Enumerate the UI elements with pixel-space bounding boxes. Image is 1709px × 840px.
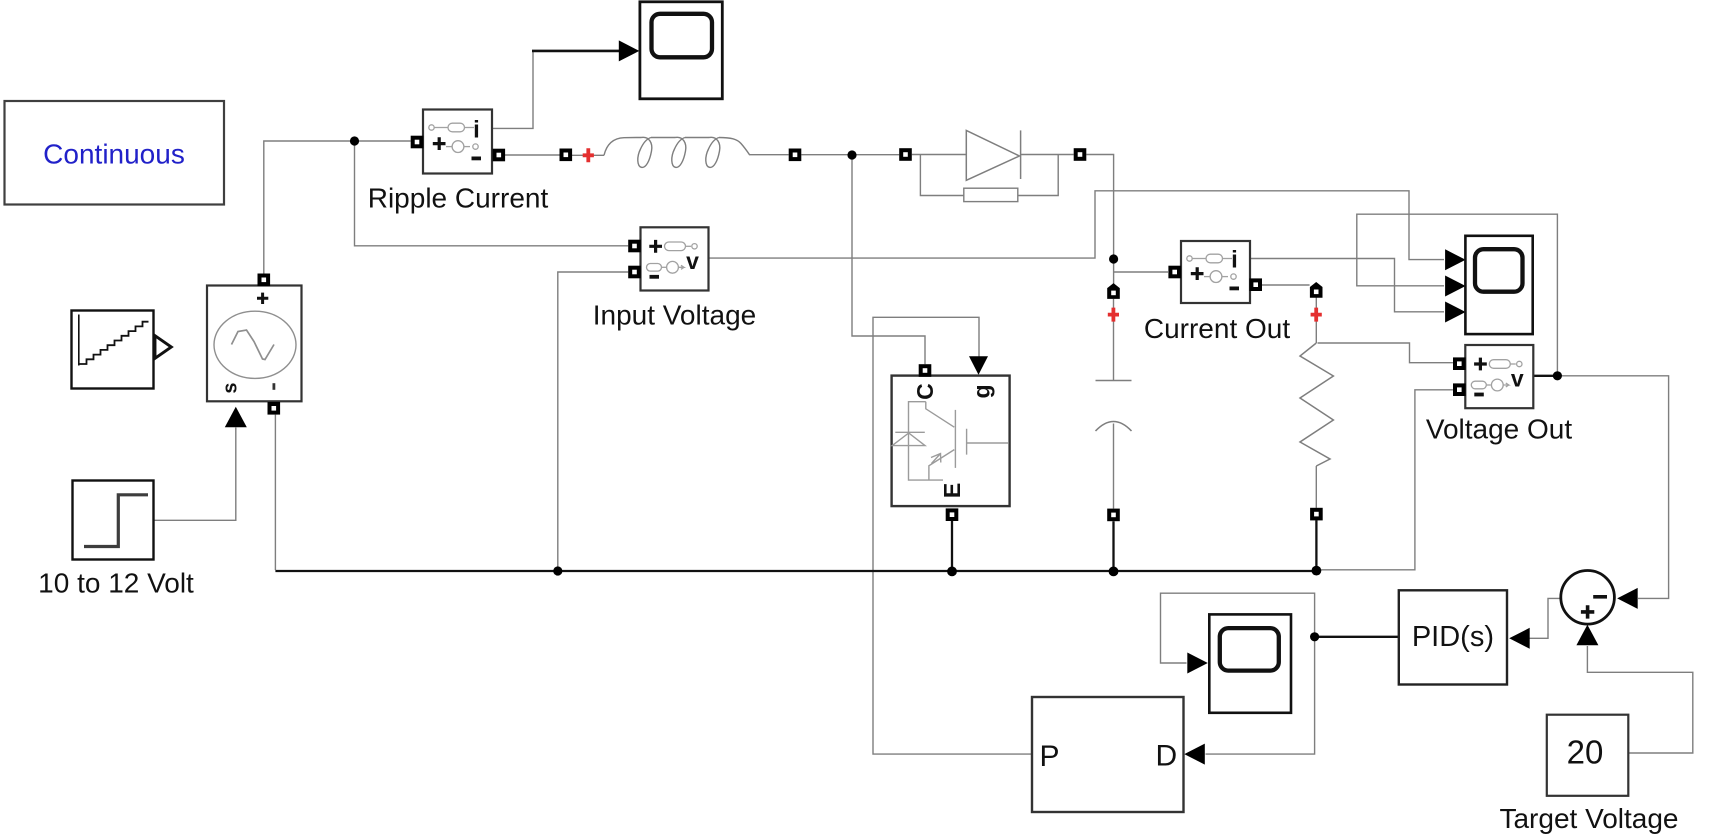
svg-text:i: i [1231,247,1238,274]
svg-text:10 to 12 Volt: 10 to 12 Volt [38,568,194,599]
svg-text:Target Voltage: Target Voltage [1499,803,1678,834]
svg-text:v: v [686,248,699,274]
svg-text:Ripple Current: Ripple Current [368,183,549,214]
svg-text:D: D [1156,740,1178,773]
svg-text:C: C [912,383,938,400]
svg-text:s: s [220,382,242,393]
svg-text:P: P [1040,740,1060,773]
svg-text:v: v [1511,366,1524,392]
svg-text:Input Voltage: Input Voltage [593,300,756,331]
svg-text:Voltage Out: Voltage Out [1426,414,1573,445]
svg-text:g: g [969,384,995,398]
svg-text:Continuous: Continuous [43,139,185,170]
svg-text:Current Out: Current Out [1144,313,1290,344]
svg-text:PID(s): PID(s) [1412,621,1494,653]
svg-text:i: i [473,117,480,144]
svg-text:20: 20 [1567,734,1604,771]
svg-text:E: E [939,483,965,498]
